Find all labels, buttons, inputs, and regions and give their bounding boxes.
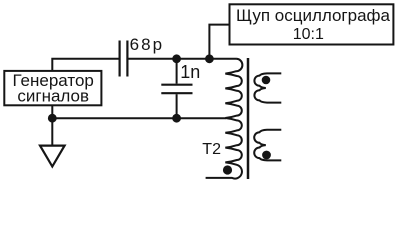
transformer secondary winding bottom [254,130,281,161]
svg-text:сигналов: сигналов [17,87,89,106]
junction node below generator [48,114,57,123]
svg-text:Щуп осциллографа: Щуп осциллографа [236,6,391,25]
svg-text:Т2: Т2 [202,141,221,158]
ground symbol [40,146,65,167]
wire from generator top to capacitor 68p [52,59,118,71]
wire generator bottom [51,105,53,118]
svg-text:10:1: 10:1 [293,26,324,43]
wire to oscilloscope probe box [209,25,229,59]
transformer T2 primary winding [206,59,243,179]
oscilloscope probe box [230,4,394,44]
junction node at 1n top [172,54,181,63]
svg-text:1n: 1n [180,62,200,82]
wire bottom to transformer tap [52,117,226,119]
capacitor 1n stub bottom [176,94,178,118]
capacitor 1n stub top [176,59,178,84]
capacitor 68p plates [120,41,128,77]
junction node at probe tap [205,54,214,63]
transformer core [247,58,250,179]
polarity dot secondary top [262,76,271,85]
wire ground stub [51,118,53,145]
polarity dot secondary bottom [262,151,271,160]
svg-text:68p: 68p [130,35,163,54]
polarity dot primary [223,165,232,174]
junction node at 1n bottom [172,114,181,123]
capacitor 1n plates [161,85,192,94]
generator box [4,71,101,105]
wire from 68p through nodes to T2 primary top [129,58,237,60]
transformer secondary winding top [254,73,281,102]
